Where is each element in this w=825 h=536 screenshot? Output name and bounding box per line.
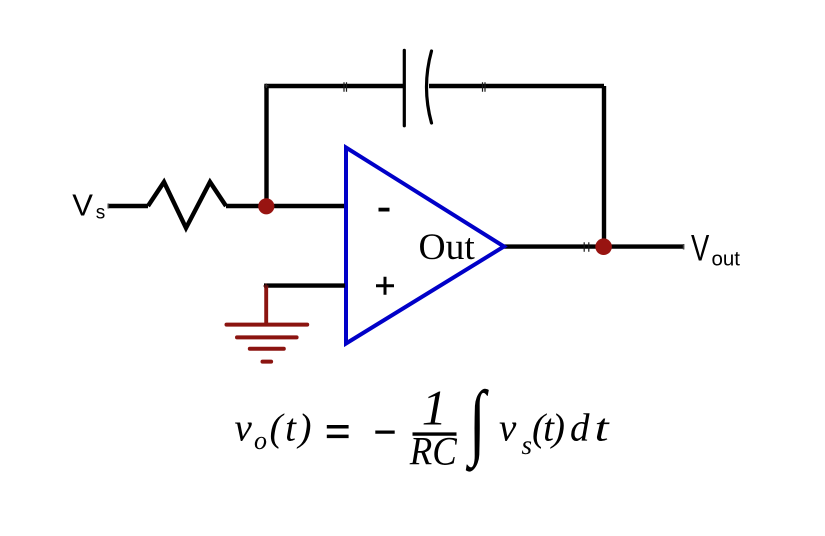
svg-text:v: v: [499, 407, 517, 450]
svg-text:(t): (t): [270, 407, 312, 450]
wire ground to non-inverting input: [264, 283, 345, 287]
svg-text:RC: RC: [409, 430, 457, 474]
wire feedback down to output: [602, 86, 606, 247]
wire tick artifacts before output node: [584, 242, 589, 252]
node Vs label: [72, 187, 105, 223]
wire node A up to feedback: [264, 86, 268, 206]
ground bar 2: [237, 335, 297, 339]
ground stem: [264, 286, 268, 326]
svg-text:s: s: [522, 430, 533, 460]
capacitor C right plate: [427, 51, 432, 123]
wire tick artifact at input start: [107, 204, 109, 209]
wire tick artifacts on top wire right: [483, 82, 486, 92]
wire tick artifacts on top wire left: [344, 82, 347, 92]
formula v_o(t) = -1/RC integral v_s(t)dt: [235, 373, 611, 474]
wire Vs to resistor: [108, 204, 148, 208]
svg-text:t: t: [595, 406, 611, 449]
ground stem top tick artifact: [264, 284, 269, 289]
node A junction dot: [258, 198, 274, 214]
formula fraction bar: [413, 432, 457, 435]
svg-text:V: V: [72, 187, 93, 222]
svg-text:s: s: [96, 202, 106, 223]
svg-text:Out: Out: [419, 227, 476, 268]
wire top feedback right: [429, 84, 604, 88]
node output junction dot: [595, 238, 612, 255]
op-amp U1: [346, 148, 504, 344]
wire output: [504, 244, 684, 248]
svg-text:1: 1: [422, 380, 447, 436]
op-amp minus sign: [379, 208, 390, 212]
svg-text:out: out: [712, 247, 741, 270]
corner tick artifact top-left: [264, 84, 269, 89]
node Vout label: [691, 226, 740, 270]
wire resistor to inverting input: [226, 204, 345, 208]
svg-text:d: d: [570, 407, 590, 450]
wire tick artifact at output end: [683, 244, 685, 250]
ground bar 4: [263, 360, 272, 364]
op-amp plus sign: [376, 277, 394, 295]
svg-text:o: o: [254, 426, 267, 455]
capacitor C left plate: [403, 50, 406, 126]
svg-text:(t): (t): [532, 407, 565, 450]
svg-text:V: V: [691, 226, 709, 268]
ground bar 3: [250, 347, 284, 351]
formula equals sign: [327, 427, 349, 437]
resistor R: [148, 182, 226, 228]
svg-text:v: v: [235, 407, 253, 450]
svg-text:∫: ∫: [466, 373, 489, 472]
wire top feedback left: [264, 84, 404, 88]
ground bar 1: [227, 323, 308, 327]
formula minus sign: [375, 431, 394, 434]
